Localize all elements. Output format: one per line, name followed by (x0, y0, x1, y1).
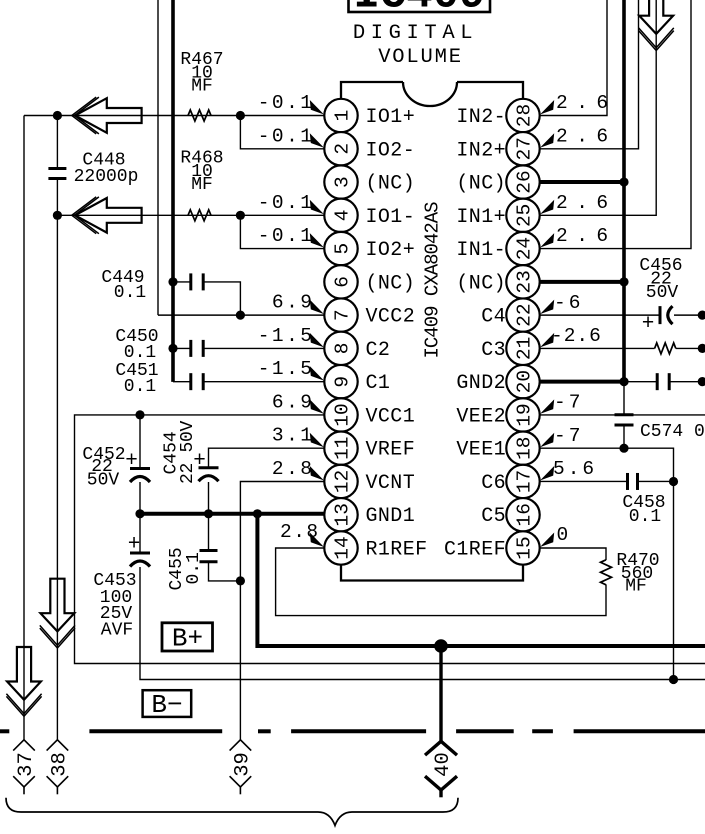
svg-text:-0.1: -0.1 (258, 125, 315, 147)
svg-text:IN1-: IN1- (456, 239, 506, 262)
svg-text:0: 0 (557, 524, 569, 546)
svg-text:13: 13 (332, 503, 354, 526)
svg-text:R1REF: R1REF (366, 539, 428, 562)
svg-text:0.1: 0.1 (124, 377, 156, 397)
svg-text:8: 8 (332, 343, 354, 355)
svg-text:IN2-: IN2- (456, 106, 506, 129)
svg-text:14: 14 (332, 536, 354, 559)
svg-text:C1: C1 (366, 372, 391, 395)
svg-text:VCC1: VCC1 (366, 405, 416, 428)
svg-text:C574 0: C574 0 (640, 422, 705, 442)
svg-text:25: 25 (514, 204, 536, 227)
svg-text:2.8: 2.8 (272, 458, 315, 480)
svg-text:GND1: GND1 (366, 505, 416, 528)
svg-text:0.1: 0.1 (184, 552, 204, 584)
svg-text:VCC2: VCC2 (366, 306, 416, 329)
svg-text:B−: B− (151, 690, 182, 720)
svg-text:50V: 50V (646, 283, 679, 303)
svg-text:MF: MF (191, 175, 213, 195)
svg-text:6: 6 (332, 276, 354, 288)
svg-text:21: 21 (514, 337, 536, 360)
svg-text:+: + (125, 450, 138, 473)
svg-text:VREF: VREF (366, 439, 416, 462)
svg-text:2.6: 2.6 (556, 192, 617, 214)
svg-text:4: 4 (332, 210, 354, 222)
svg-text:(NC): (NC) (456, 272, 506, 295)
svg-text:IC409 CXA8042AS: IC409 CXA8042AS (422, 202, 444, 359)
svg-text:B+: B+ (172, 624, 203, 654)
svg-text:11: 11 (332, 436, 354, 459)
svg-text:22000p: 22000p (74, 167, 139, 187)
svg-text:20: 20 (514, 370, 536, 393)
svg-text:(NC): (NC) (456, 173, 506, 196)
svg-text:VOLUME: VOLUME (378, 46, 463, 69)
svg-text:-1.5: -1.5 (258, 358, 315, 380)
svg-text:C1REF: C1REF (444, 539, 506, 562)
svg-text:(NC): (NC) (366, 173, 416, 196)
svg-text:C2: C2 (366, 339, 391, 362)
svg-text:+: + (642, 313, 655, 336)
svg-text:38: 38 (49, 752, 72, 777)
svg-text:27: 27 (514, 137, 536, 160)
svg-text:+: + (193, 450, 206, 473)
svg-text:IO2-: IO2- (366, 139, 416, 162)
svg-text:9: 9 (332, 376, 354, 388)
svg-text:24: 24 (514, 237, 536, 260)
svg-text:-7: -7 (554, 425, 583, 447)
svg-text:-0.1: -0.1 (258, 225, 315, 247)
svg-text:2.8: 2.8 (280, 521, 320, 543)
svg-text:1: 1 (332, 110, 354, 122)
svg-text:+: + (128, 534, 141, 557)
svg-text:6.9: 6.9 (272, 391, 315, 413)
svg-text:-1.5: -1.5 (258, 325, 315, 347)
svg-text:2.6: 2.6 (556, 225, 617, 247)
svg-text:C4: C4 (481, 306, 506, 329)
svg-text:2.6: 2.6 (556, 125, 617, 147)
svg-text:37: 37 (15, 752, 38, 777)
svg-text:19: 19 (514, 403, 536, 426)
svg-text:VEE1: VEE1 (456, 439, 506, 462)
svg-text:VEE2: VEE2 (456, 405, 506, 428)
svg-text:AVF: AVF (101, 621, 133, 641)
svg-text:12: 12 (332, 470, 354, 493)
svg-text:0.1: 0.1 (124, 343, 156, 363)
svg-text:2: 2 (332, 143, 354, 155)
svg-text:-6: -6 (554, 292, 583, 314)
svg-text:C5: C5 (481, 505, 506, 528)
svg-text:MF: MF (625, 577, 647, 597)
svg-text:-0.1: -0.1 (258, 92, 315, 114)
svg-text:3: 3 (332, 176, 354, 188)
svg-text:IO1+: IO1+ (366, 106, 416, 129)
svg-text:DIGITAL: DIGITAL (353, 22, 478, 45)
svg-text:IN1+: IN1+ (456, 206, 506, 229)
svg-text:IC409: IC409 (353, 0, 485, 21)
svg-text:23: 23 (514, 270, 536, 293)
svg-text:IO2+: IO2+ (366, 239, 416, 262)
svg-text:3.1: 3.1 (272, 425, 315, 447)
svg-text:28: 28 (514, 104, 536, 127)
svg-text:0.1: 0.1 (629, 507, 661, 527)
svg-text:0.1: 0.1 (114, 283, 146, 303)
svg-text:(NC): (NC) (366, 272, 416, 295)
svg-text:-7: -7 (554, 392, 583, 414)
svg-text:5: 5 (332, 243, 354, 255)
svg-text:40: 40 (432, 752, 455, 777)
svg-text:VCNT: VCNT (366, 472, 416, 495)
svg-text:7: 7 (332, 309, 354, 321)
svg-text:IO1-: IO1- (366, 206, 416, 229)
svg-text:IN2+: IN2+ (456, 139, 506, 162)
svg-text:6.9: 6.9 (272, 292, 315, 314)
svg-text:10: 10 (332, 403, 354, 426)
svg-text:16: 16 (514, 503, 536, 526)
svg-text:-0.1: -0.1 (258, 192, 315, 214)
svg-text:MF: MF (191, 77, 213, 97)
svg-text:5.6: 5.6 (553, 458, 597, 480)
svg-text:18: 18 (514, 436, 536, 459)
svg-text:-2.6: -2.6 (551, 325, 602, 347)
svg-text:GND2: GND2 (456, 372, 506, 395)
svg-text:50V: 50V (87, 471, 120, 491)
svg-text:17: 17 (514, 470, 536, 493)
svg-text:15: 15 (514, 536, 536, 559)
svg-text:22: 22 (514, 303, 536, 326)
svg-text:C6: C6 (481, 472, 506, 495)
svg-text:2.6: 2.6 (556, 92, 617, 114)
svg-text:C3: C3 (481, 339, 506, 362)
svg-text:39: 39 (232, 752, 255, 777)
svg-text:26: 26 (514, 170, 536, 193)
